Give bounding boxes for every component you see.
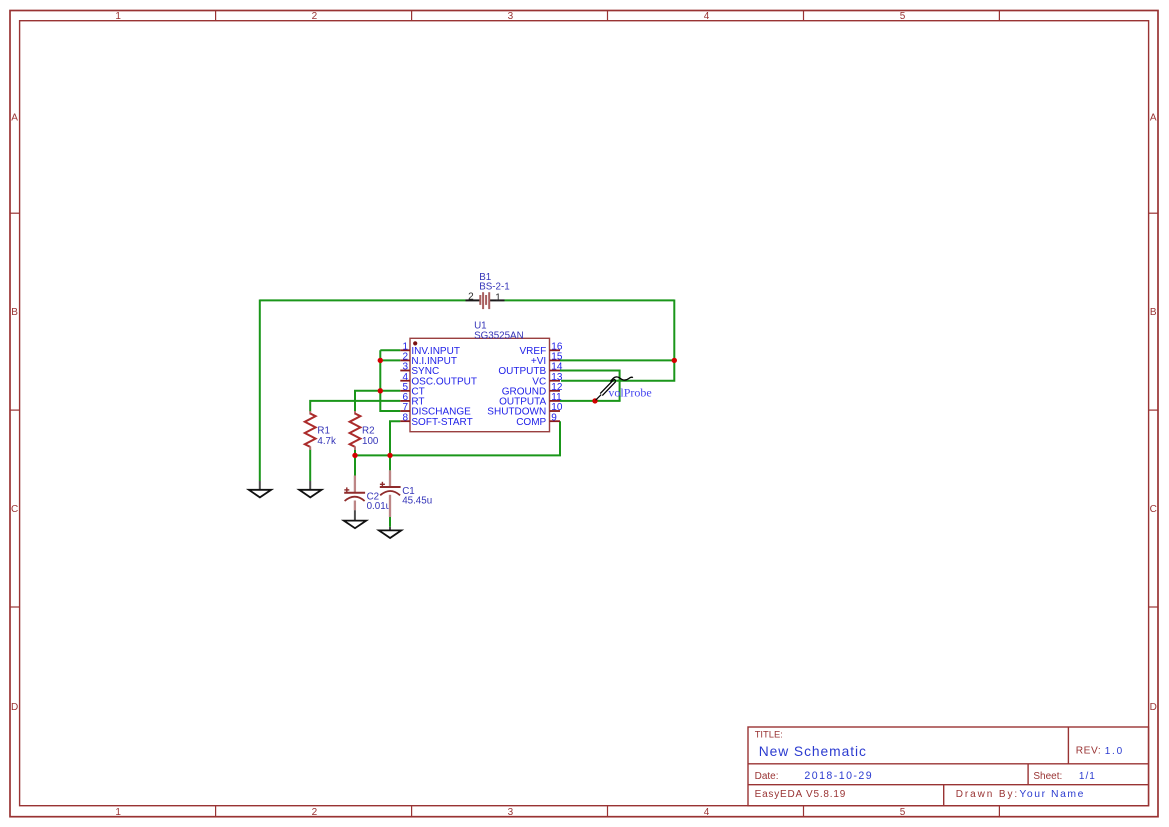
- junction dot battery right +VI: [672, 358, 677, 363]
- title block Date label: [755, 771, 779, 782]
- title block EasyEDA version: [755, 789, 847, 800]
- title block TITLE label: [755, 728, 783, 739]
- svg-text:SOFT-START: SOFT-START: [411, 417, 472, 428]
- U1 right pin numbers: [551, 342, 563, 424]
- R1 reference label: [317, 426, 330, 437]
- battery B1 reference label: [479, 272, 491, 283]
- svg-text:100: 100: [362, 436, 379, 447]
- battery pin number 1: [495, 292, 501, 303]
- junction dot pin2 net: [378, 358, 383, 363]
- svg-text:5: 5: [900, 11, 906, 22]
- R2 reference label: [362, 426, 375, 437]
- junction dot probe on OUTPUTA: [592, 398, 597, 403]
- volProbe label: [608, 385, 651, 399]
- U1 value label SG3525AN: [474, 331, 524, 342]
- svg-text:9: 9: [551, 412, 557, 423]
- wire pin7 DISCHANGE vertical: [380, 350, 400, 411]
- svg-text:45.45u: 45.45u: [402, 496, 432, 507]
- svg-text:4: 4: [704, 807, 710, 818]
- R2 value label: [362, 436, 379, 447]
- battery B1: [466, 292, 505, 309]
- svg-text:1.0: 1.0: [1105, 746, 1124, 757]
- title block date value: [804, 770, 873, 782]
- svg-text:4: 4: [704, 11, 710, 22]
- ground at C2: [344, 510, 366, 528]
- svg-text:REV:: REV:: [1076, 746, 1101, 757]
- wire pin8 SOFT-START down to C1: [390, 421, 400, 470]
- svg-text:2018-10-29: 2018-10-29: [804, 770, 873, 782]
- svg-text:volProbe: volProbe: [608, 385, 651, 399]
- svg-text:A: A: [1150, 112, 1157, 123]
- svg-text:Sheet:: Sheet:: [1033, 771, 1062, 782]
- C2 value label: [367, 501, 392, 512]
- ground at C1: [379, 527, 401, 538]
- wire R1 bottom to ground: [309, 450, 311, 482]
- svg-text:Date:: Date:: [755, 771, 779, 782]
- R1 value label: [317, 436, 336, 447]
- C1 value label: [402, 496, 432, 507]
- junction dot pin5 net: [378, 388, 383, 393]
- svg-text:A: A: [11, 112, 18, 123]
- svg-text:Drawn By:: Drawn By:: [956, 789, 1019, 800]
- svg-text:3: 3: [508, 11, 514, 22]
- svg-text:C: C: [1150, 504, 1157, 515]
- title block sheet value: [1079, 771, 1096, 782]
- resistor R1: [305, 411, 316, 450]
- svg-text:COMP: COMP: [516, 417, 546, 428]
- battery B1 value label BS-2-1: [479, 282, 510, 293]
- svg-text:Your Name: Your Name: [1019, 789, 1085, 800]
- voltage probe volProbe: [596, 377, 633, 400]
- wire C1 bottom to ground: [389, 517, 391, 527]
- wire left vertical to ground: [259, 300, 261, 482]
- svg-text:1/1: 1/1: [1079, 771, 1096, 782]
- svg-text:4.7k: 4.7k: [317, 436, 336, 447]
- wire junction to C2 top: [354, 455, 356, 475]
- svg-text:C: C: [11, 504, 18, 515]
- U1 left pin numbers: [402, 342, 408, 424]
- wire right vertical to VC: [561, 300, 674, 381]
- title block REV label: [1076, 746, 1101, 757]
- title block Drawn By label: [956, 789, 1019, 800]
- wire pin14 OUTPUTB: [560, 371, 620, 401]
- wire R2 bottom to junction: [354, 450, 356, 457]
- ground at R1: [299, 481, 321, 497]
- wire pin9 COMP down and across: [355, 421, 560, 455]
- battery pin number 2: [468, 292, 474, 303]
- capacitor C2: [344, 476, 365, 511]
- U1 left pin names: [411, 346, 477, 428]
- resistor R2: [350, 411, 361, 450]
- svg-text:2: 2: [468, 292, 474, 303]
- svg-text:1: 1: [495, 292, 501, 303]
- title block lines: [748, 727, 1149, 806]
- svg-text:2: 2: [312, 807, 318, 818]
- title block title text: [759, 744, 867, 759]
- wire pin15 +VI: [560, 359, 674, 361]
- svg-text:TITLE:: TITLE:: [755, 728, 783, 739]
- U1 left pin stubs 1-8: [400, 350, 410, 421]
- U1 right pin stubs 16-9: [550, 350, 561, 421]
- junction dot R2-C2 net: [352, 453, 357, 458]
- svg-text:SG3525AN: SG3525AN: [474, 331, 524, 342]
- title block rev value: [1105, 746, 1124, 757]
- U1 pin1 indicator dot: [413, 341, 417, 345]
- U1 reference label: [474, 321, 487, 332]
- svg-text:EasyEDA V5.8.19: EasyEDA V5.8.19: [755, 789, 847, 800]
- svg-text:8: 8: [402, 412, 408, 423]
- C1 reference label: [402, 486, 415, 497]
- wire battery left horizontal: [260, 299, 466, 301]
- capacitor C1: [380, 470, 401, 517]
- ground at battery left: [249, 481, 271, 497]
- svg-text:New Schematic: New Schematic: [759, 744, 867, 759]
- junction dot C1 net: [387, 453, 392, 458]
- svg-text:2: 2: [312, 11, 318, 22]
- wire pin5 CT to R2: [355, 391, 400, 412]
- U1 right pin names: [487, 346, 546, 428]
- svg-text:0.01u: 0.01u: [367, 501, 392, 512]
- svg-text:D: D: [11, 702, 18, 713]
- op-amp U1 SG3525AN body: [410, 338, 550, 431]
- wire battery right horizontal: [505, 299, 675, 301]
- svg-text:1: 1: [115, 11, 121, 22]
- C2 reference label: [367, 492, 380, 503]
- svg-text:B: B: [1150, 307, 1157, 318]
- title block drawn by value: [1019, 789, 1085, 800]
- svg-text:D: D: [1150, 702, 1157, 713]
- title block Sheet label: [1033, 771, 1062, 782]
- svg-text:3: 3: [508, 807, 514, 818]
- svg-text:B: B: [11, 307, 18, 318]
- svg-text:1: 1: [115, 807, 121, 818]
- wire pin1 INV.INPUT: [380, 349, 400, 351]
- wire pin6 RT to R1: [310, 401, 400, 412]
- svg-text:5: 5: [900, 807, 906, 818]
- wire pin11 OUTPUTA: [560, 400, 621, 402]
- wire pin2 N.I.INPUT: [380, 359, 400, 361]
- svg-text:BS-2-1: BS-2-1: [479, 282, 510, 293]
